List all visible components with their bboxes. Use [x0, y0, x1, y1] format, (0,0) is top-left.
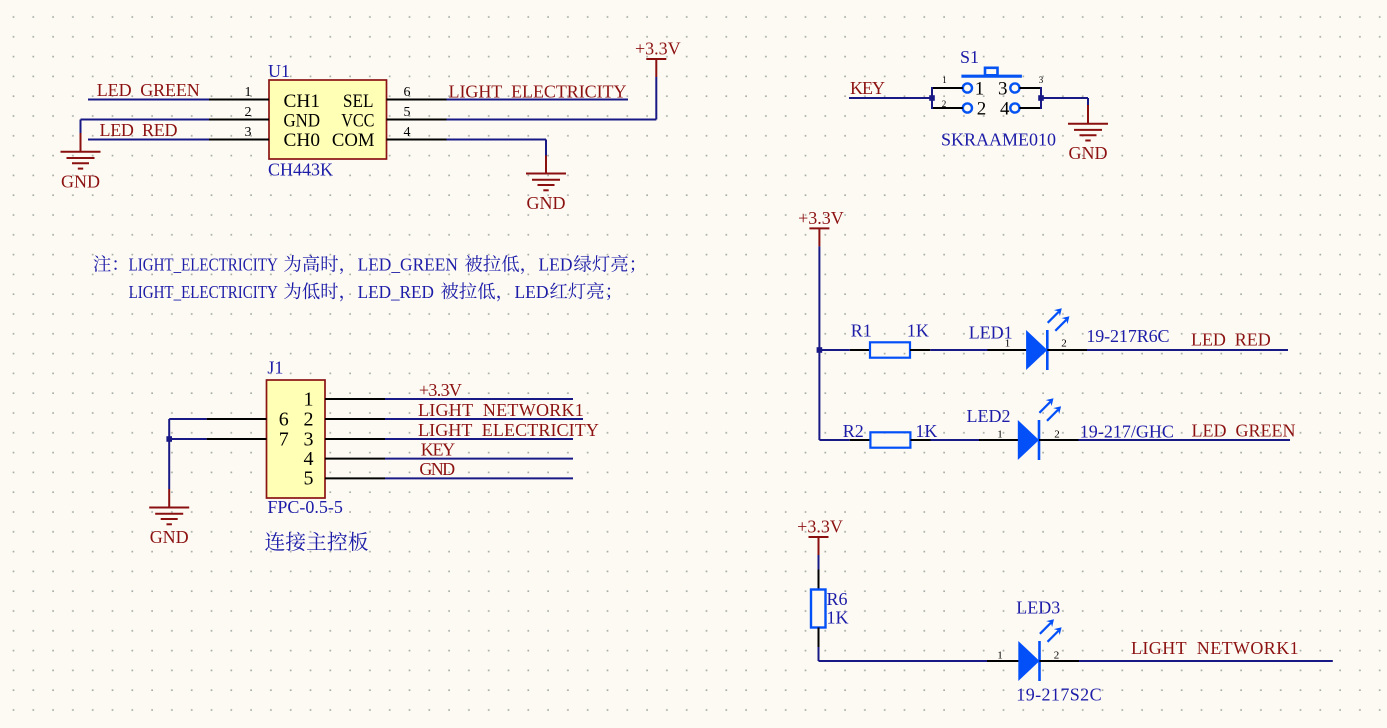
- LED3 pin 1: [987, 660, 1019, 662]
- svg-text:2: 2: [1061, 337, 1067, 349]
- svg-text:R1: R1: [851, 321, 872, 341]
- S1 pin 4 stub: [1020, 107, 1042, 109]
- svg-text:GND: GND: [61, 171, 100, 191]
- ground GND-S1: [1068, 105, 1108, 141]
- svg-text:S1: S1: [960, 47, 979, 67]
- wire S1 to GND: [1041, 97, 1088, 99]
- note line1 cjk 1: [284, 255, 343, 274]
- wire R2 to LED2: [931, 439, 980, 441]
- S1 pin 2 stub: [932, 107, 963, 109]
- svg-text:5: 5: [304, 468, 314, 490]
- svg-text:3: 3: [998, 79, 1008, 100]
- svg-text:4: 4: [404, 125, 411, 140]
- wire +3.3V rail vertical: [818, 246, 820, 440]
- svg-text:2: 2: [1054, 428, 1060, 440]
- svg-text:+3.3V: +3.3V: [797, 516, 843, 536]
- svg-text:1: 1: [975, 79, 985, 100]
- svg-text:7: 7: [279, 428, 289, 450]
- J1 pin 7 stub: [207, 438, 267, 440]
- wire U1 pin4 to GND: [447, 139, 547, 141]
- svg-text:5: 5: [404, 105, 411, 120]
- resistor R2 1K: [870, 432, 910, 447]
- wire rail to R1: [819, 349, 849, 351]
- wire J1 pin7 to GND rail: [169, 438, 206, 440]
- svg-text:LED3: LED3: [1016, 598, 1060, 618]
- wire J1 pin 2 net LIGHT_NETWORK1: [385, 418, 583, 420]
- svg-text:LED_RED: LED_RED: [358, 282, 434, 302]
- wire rail to R2: [819, 439, 849, 441]
- wire vertical GND rail: [168, 419, 170, 489]
- svg-text:VCC: VCC: [341, 111, 374, 132]
- svg-text:LIGHT_ELECTRICITY: LIGHT_ELECTRICITY: [129, 255, 278, 275]
- svg-text:GND: GND: [284, 111, 321, 132]
- wire net LED_RED: [88, 139, 209, 141]
- svg-text:+3.3V: +3.3V: [419, 380, 462, 400]
- svg-text:2: 2: [304, 408, 314, 430]
- svg-text:LIGHT NETWORK1: LIGHT NETWORK1: [418, 400, 584, 420]
- J1 pin 1 stub: [325, 398, 385, 400]
- svg-text:19-217R6C: 19-217R6C: [1086, 326, 1169, 346]
- U1 pin 2 stub: [209, 119, 269, 121]
- text 连接主控板: [265, 532, 368, 551]
- svg-text:GND: GND: [527, 193, 566, 213]
- note line1 cjk 3: [574, 255, 634, 273]
- LED LED2: [1018, 398, 1061, 460]
- svg-text:19-217S2C: 19-217S2C: [1016, 685, 1101, 705]
- J1 pin 5 stub: [325, 477, 385, 479]
- svg-text:CH0: CH0: [284, 130, 321, 151]
- svg-text:FPC-0.5-5: FPC-0.5-5: [267, 497, 343, 517]
- wire vertical to +3.3V: [655, 77, 657, 120]
- svg-text:LIGHT ELECTRICITY: LIGHT ELECTRICITY: [449, 82, 627, 102]
- resistor R6 1K: [811, 590, 826, 628]
- IC U1 body CH443K: [269, 80, 387, 159]
- svg-text:LED RED: LED RED: [1191, 330, 1271, 350]
- svg-text:LED2: LED2: [967, 406, 1011, 426]
- svg-text:LED RED: LED RED: [100, 120, 178, 140]
- junction LED rail: [817, 347, 823, 353]
- U1 pin 4 stub: [387, 139, 447, 141]
- svg-text:6: 6: [404, 85, 411, 100]
- svg-text:J1: J1: [267, 358, 283, 378]
- svg-text:U1: U1: [268, 61, 290, 81]
- power +3.3V LED3: [809, 537, 829, 555]
- svg-text:R2: R2: [843, 421, 864, 441]
- svg-text:1: 1: [304, 388, 314, 410]
- svg-text:1: 1: [942, 75, 947, 85]
- svg-text:LED: LED: [539, 255, 573, 275]
- svg-text:4: 4: [304, 448, 314, 470]
- svg-text:KEY: KEY: [850, 78, 885, 98]
- switch S1 button bar: [961, 68, 1022, 76]
- wire net KEY: [849, 97, 932, 99]
- connector J1 body: [267, 380, 326, 498]
- svg-text:1: 1: [997, 428, 1003, 440]
- svg-text:LED: LED: [515, 282, 549, 302]
- svg-text:GND: GND: [1069, 143, 1108, 163]
- R6 pin 2: [818, 628, 820, 648]
- wire J1 pin 3 net LIGHT_ELECTRICITY: [385, 438, 573, 440]
- R1 pin 1: [850, 349, 870, 351]
- resistor R1 1K: [870, 342, 910, 357]
- note line2 cjk 2: [441, 282, 500, 301]
- svg-text:LED1: LED1: [969, 323, 1013, 343]
- R2 pin 2: [910, 439, 930, 441]
- U1 pin 1 stub: [209, 99, 269, 101]
- svg-text:1K: 1K: [915, 421, 937, 441]
- LED3 pin 2: [1040, 660, 1080, 662]
- svg-text:LIGHT NETWORK1: LIGHT NETWORK1: [1131, 638, 1299, 658]
- wire corner to LED3: [819, 660, 988, 662]
- svg-text:3: 3: [1039, 75, 1044, 85]
- wire J1 pin 4 net KEY: [385, 458, 573, 460]
- svg-text:2: 2: [245, 105, 252, 120]
- svg-text:1K: 1K: [907, 321, 929, 341]
- wire R1 to LED1: [930, 349, 987, 351]
- svg-text:3: 3: [245, 125, 252, 140]
- svg-text:CH443K: CH443K: [268, 160, 333, 180]
- LED LED1: [1026, 308, 1069, 370]
- wire net LED_RED right: [1087, 349, 1288, 351]
- U1 pin 6 stub: [387, 99, 447, 101]
- wire net LIGHT_NETWORK1 bottom: [1079, 660, 1333, 662]
- wire S1 left bracket: [931, 87, 933, 109]
- svg-text:LED_GREEN: LED_GREEN: [358, 255, 458, 275]
- wire +3.3V to R6: [818, 555, 820, 570]
- wire J1 pin 5 net GND: [385, 477, 573, 479]
- wire J1 pin 1 net +3.3V: [385, 398, 573, 400]
- svg-text:6: 6: [279, 408, 289, 430]
- wire net LED_GREEN: [88, 99, 209, 101]
- svg-text:+3.3V: +3.3V: [798, 208, 844, 228]
- R6 pin 1: [818, 570, 820, 590]
- ground GND-U1-left: [61, 133, 101, 169]
- J1 pin 3 stub: [325, 438, 385, 440]
- junction J1 GND rail: [166, 436, 172, 442]
- U1 pin 3 stub: [209, 139, 269, 141]
- note line1 prefix: [94, 255, 117, 272]
- R1 pin 2: [910, 349, 930, 351]
- svg-text:1K: 1K: [827, 608, 849, 628]
- LED1 pin 2: [1047, 349, 1087, 351]
- wire R6 to corner: [818, 647, 820, 661]
- power +3.3V LED rail: [809, 228, 829, 246]
- svg-text:GND: GND: [150, 527, 189, 547]
- power +3.3V above U1: [646, 59, 666, 77]
- svg-text:LIGHT_ELECTRICITY: LIGHT_ELECTRICITY: [129, 282, 278, 302]
- note line2 cjk 1: [284, 282, 343, 301]
- svg-text:1: 1: [245, 85, 252, 100]
- note line2 cjk 3: [550, 282, 610, 300]
- wire U1 pin2 to GND: [81, 119, 210, 121]
- svg-text:4: 4: [1000, 99, 1010, 120]
- J1 pin 6 stub: [207, 418, 267, 420]
- svg-text:LED GREEN: LED GREEN: [1192, 421, 1296, 441]
- note line1 cjk 2: [465, 255, 524, 274]
- ground GND-U1-right: [526, 156, 566, 191]
- svg-text:SKRAAME010: SKRAAME010: [941, 130, 1056, 150]
- LED1 pin 1: [988, 349, 1027, 351]
- svg-text:2: 2: [1054, 649, 1060, 661]
- wire net LIGHT_ELECTRICITY: [447, 99, 629, 101]
- svg-text:LIGHT ELECTRICITY: LIGHT ELECTRICITY: [418, 420, 599, 440]
- svg-text:1: 1: [997, 649, 1003, 661]
- wire J1 pin6 to GND rail: [169, 418, 206, 420]
- J1 pin 2 stub: [325, 418, 385, 420]
- wire vertical to GND: [545, 140, 547, 156]
- ground GND-J1: [149, 489, 189, 524]
- wire U1 pin5 to +3.3V: [447, 119, 657, 121]
- svg-text:R6: R6: [827, 589, 848, 609]
- wire vertical S1 GND: [1087, 98, 1089, 105]
- junction S1 right: [1038, 95, 1044, 101]
- LED2 pin 1: [979, 439, 1018, 441]
- svg-text:COM: COM: [332, 130, 375, 151]
- S1 pin 1 stub: [932, 87, 963, 89]
- LED2 pin 2: [1039, 439, 1079, 441]
- wire S1 right bracket: [1040, 87, 1042, 109]
- svg-text:+3.3V: +3.3V: [635, 38, 681, 58]
- R2 pin 1: [850, 439, 871, 441]
- svg-text:CH1: CH1: [284, 91, 321, 112]
- junction S1 left: [929, 95, 935, 101]
- svg-text:SEL: SEL: [343, 91, 374, 112]
- LED LED3: [1018, 619, 1061, 681]
- svg-text:2: 2: [977, 99, 987, 120]
- wire vertical to GND: [80, 120, 82, 134]
- svg-text:19-217/GHC: 19-217/GHC: [1080, 422, 1174, 442]
- svg-text:GND: GND: [419, 459, 455, 479]
- S1 pin 3 stub: [1020, 87, 1042, 89]
- U1 pin 5 stub: [387, 119, 447, 121]
- switch S1 contacts: [963, 83, 1020, 112]
- svg-text:2: 2: [942, 99, 947, 109]
- wire net LED_GREEN right: [1079, 439, 1291, 441]
- J1 pin 4 stub: [325, 458, 385, 460]
- svg-text:KEY: KEY: [421, 439, 455, 459]
- svg-text:LED GREEN: LED GREEN: [97, 80, 200, 100]
